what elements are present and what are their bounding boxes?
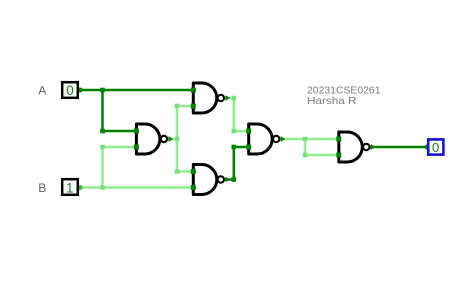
svg-text:0: 0 (432, 140, 439, 155)
svg-text:A: A (38, 84, 46, 98)
svg-text:B: B (38, 181, 46, 195)
svg-text:1: 1 (66, 180, 74, 195)
svg-text:Harsha R: Harsha R (307, 95, 357, 107)
svg-text:0: 0 (66, 83, 74, 98)
